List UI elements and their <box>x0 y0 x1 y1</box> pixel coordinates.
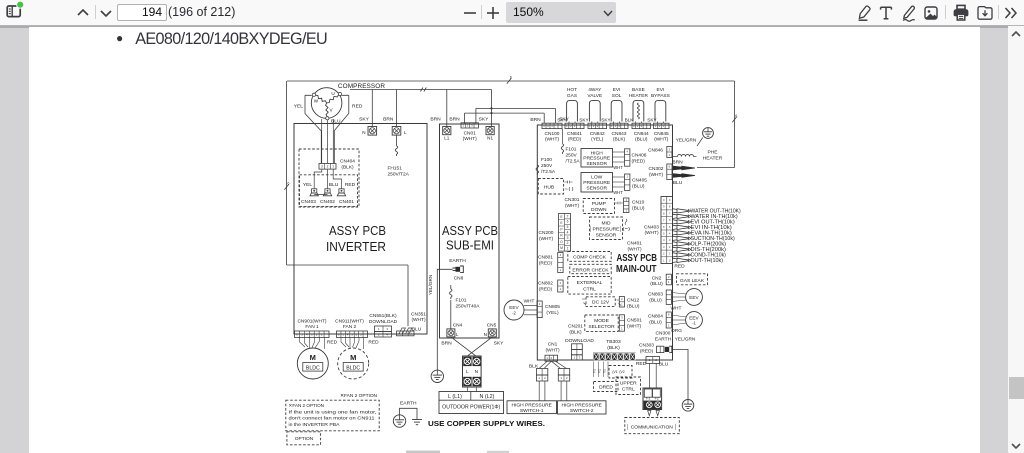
terminal N <box>368 127 377 136</box>
svg-text:(YEL): (YEL) <box>591 137 604 143</box>
svg-text:3: 3 <box>621 316 623 320</box>
svg-text:✕FAN 2 OPTION: ✕FAN 2 OPTION <box>289 403 325 408</box>
wire marker 6 wires <box>507 78 511 84</box>
svg-text:(BLU): (BLU) <box>649 319 662 325</box>
svg-text:6: 6 <box>567 220 569 224</box>
svg-text:N (L2): N (L2) <box>480 394 495 400</box>
earth circle power <box>431 370 443 382</box>
external ctrl dashed box <box>568 277 611 295</box>
svg-text:2: 2 <box>669 147 671 151</box>
connector CN804 <box>666 312 671 328</box>
svg-text:CN403: CN403 <box>644 224 659 230</box>
svg-text:F100: F100 <box>541 157 552 163</box>
svg-text:8: 8 <box>663 211 665 215</box>
svg-text:1: 1 <box>539 302 541 306</box>
svg-text:If the unit is using one fan m: If the unit is using one fan motor, <box>289 409 377 414</box>
svg-text:7: 7 <box>567 214 569 218</box>
compressor terminal U <box>338 92 341 95</box>
svg-text:9: 9 <box>663 205 665 209</box>
svg-text:1: 1 <box>589 124 591 128</box>
svg-text:WHT: WHT <box>524 298 535 303</box>
svg-text:2: 2 <box>570 124 572 128</box>
svg-text:(RED): (RED) <box>539 260 553 266</box>
svg-text:YEL: YEL <box>303 182 313 188</box>
DRED dashed box <box>594 382 619 392</box>
svg-text:(RED): (RED) <box>539 286 553 292</box>
svg-text:E: E <box>560 215 563 219</box>
svg-text:F101: F101 <box>566 147 577 153</box>
svg-text:1: 1 <box>621 302 623 306</box>
svg-text:2: 2 <box>637 124 639 128</box>
svg-text:CN911(WHT): CN911(WHT) <box>335 318 364 324</box>
UPPER CTRL dashed box <box>616 377 641 395</box>
svg-text:BASE: BASE <box>632 87 645 93</box>
svg-text:MODE: MODE <box>594 318 609 324</box>
wires to power terminal crossing <box>451 337 476 356</box>
svg-text:ASSY PCB: ASSY PCB <box>329 224 386 238</box>
svg-text:BLK: BLK <box>625 117 635 122</box>
wire drop to junction <box>491 90 493 127</box>
svg-text:SUB-EMI: SUB-EMI <box>446 239 494 253</box>
connector CN405 <box>625 174 630 190</box>
svg-text:6: 6 <box>668 313 670 317</box>
svg-text:CN2: CN2 <box>652 275 662 281</box>
svg-text:BLU: BLU <box>659 362 669 368</box>
svg-text:✕FAN 2 OPTION: ✕FAN 2 OPTION <box>340 393 378 399</box>
high pressure sensor box <box>581 149 613 168</box>
compressor winding V <box>326 103 329 117</box>
svg-text:ERROR CHECK: ERROR CHECK <box>572 267 609 273</box>
CN404 option dashed box <box>299 149 359 207</box>
svg-text:CN406: CN406 <box>632 153 647 159</box>
connector switch-2 <box>558 369 569 376</box>
svg-text:YEL: YEL <box>294 104 304 110</box>
svg-text:SKY: SKY <box>479 117 490 123</box>
svg-text:CN01: CN01 <box>464 130 477 136</box>
wires to communication block <box>648 363 650 388</box>
fuse F101 40A <box>450 300 452 329</box>
svg-text:0: 0 <box>663 198 665 202</box>
svg-text:CN801: CN801 <box>538 255 553 261</box>
svg-text:3: 3 <box>662 124 664 128</box>
svg-text:6: 6 <box>510 75 512 79</box>
svg-text:COMPRESSOR: COMPRESSOR <box>338 83 385 90</box>
svg-text:N: N <box>484 332 487 337</box>
high pressure switch-2 box <box>558 401 607 414</box>
svg-text:DOWN: DOWN <box>591 207 607 213</box>
svg-text:CN200: CN200 <box>539 230 554 236</box>
svg-text:CN12: CN12 <box>627 298 640 304</box>
earth bracket <box>400 408 418 419</box>
svg-text:(BLK): (BLK) <box>569 329 582 335</box>
svg-text:BYPASS: BYPASS <box>651 93 670 99</box>
svg-text:CN300: CN300 <box>656 330 671 336</box>
svg-text:6: 6 <box>663 225 665 229</box>
svg-text:(BLU): (BLU) <box>649 297 662 303</box>
svg-text:CN302: CN302 <box>649 166 664 172</box>
wire left drop feed <box>286 81 288 265</box>
svg-text:3: 3 <box>567 236 569 240</box>
connector CN845 <box>654 123 670 128</box>
plug CN402 <box>325 189 330 193</box>
svg-text:1: 1 <box>560 268 562 272</box>
svg-text:M: M <box>560 246 563 250</box>
svg-text:5: 5 <box>663 231 665 235</box>
svg-text:2: 2 <box>668 275 670 279</box>
connector CN805 <box>537 301 542 318</box>
svg-text:GAS LEAK: GAS LEAK <box>680 278 705 284</box>
svg-text:CN402: CN402 <box>320 199 335 205</box>
terminal strip TB303 <box>593 353 636 361</box>
svg-text:2: 2 <box>567 241 569 245</box>
svg-text:(BLU): (BLU) <box>635 137 648 143</box>
wire marker 6 wires right <box>732 117 736 123</box>
outdoor power table <box>439 392 504 414</box>
svg-text:SKY: SKY <box>557 117 567 122</box>
svg-text:│PRESSURE│: │PRESSURE│ <box>589 225 622 232</box>
V1V2 dashed box <box>609 366 632 379</box>
svg-text:250V/T40A: 250V/T40A <box>456 304 481 310</box>
svg-text:WHT: WHT <box>613 165 623 170</box>
svg-text:ASSY PCB: ASSY PCB <box>442 224 498 238</box>
svg-text:U: U <box>331 91 334 96</box>
svg-text:1: 1 <box>669 153 671 157</box>
compressor winding U <box>327 95 339 103</box>
svg-text:PRESSURE: PRESSURE <box>583 180 611 186</box>
svg-text:3: 3 <box>663 245 665 249</box>
error check dashed box <box>570 264 611 273</box>
svg-text:YEL/GRN: YEL/GRN <box>428 275 433 296</box>
jumper CN403-CN402 <box>314 194 327 196</box>
svg-text:CN803: CN803 <box>648 292 663 298</box>
connector CN802 <box>558 280 563 292</box>
svg-text:F101: F101 <box>456 298 467 304</box>
svg-text:2: 2 <box>663 252 665 256</box>
svg-text:1: 1 <box>663 258 665 262</box>
svg-text:YEL/GRN: YEL/GRN <box>675 336 696 341</box>
svg-text:F2: F2 <box>598 369 602 373</box>
svg-text:RED: RED <box>368 340 379 346</box>
svg-text:CN805: CN805 <box>545 304 560 310</box>
svg-text:ORG: ORG <box>671 328 682 334</box>
svg-text:CN802: CN802 <box>538 281 553 287</box>
svg-text:RED: RED <box>327 340 338 346</box>
svg-text:2: 2 <box>544 376 546 380</box>
svg-text:CTRL: CTRL <box>622 387 635 393</box>
connector CN801 <box>558 253 563 273</box>
wires block to table <box>466 387 468 392</box>
svg-text:/T2.5A: /T2.5A <box>566 159 581 165</box>
svg-text:1: 1 <box>573 355 575 359</box>
svg-text:1: 1 <box>621 326 623 330</box>
svg-text:USE COPPER SUPPLY WIRES.: USE COPPER SUPPLY WIRES. <box>428 419 545 428</box>
ASSY PCB SUB-EMI box <box>440 124 500 338</box>
thermistor DIS-TH(200k) <box>673 247 685 251</box>
svg-text:CTRL: CTRL <box>583 286 596 292</box>
svg-text:CN1: CN1 <box>548 341 558 347</box>
thermistor OUT-TH(10k) <box>673 258 685 262</box>
svg-text:CN844: CN844 <box>634 131 649 137</box>
svg-text:4: 4 <box>567 230 569 234</box>
svg-text:V: V <box>330 108 334 113</box>
plug CN401 <box>339 189 344 193</box>
svg-text:GAS: GAS <box>567 93 577 99</box>
thermistor OLP-TH(200k) <box>673 242 685 246</box>
svg-text:2: 2 <box>593 124 595 128</box>
svg-text:1: 1 <box>538 376 540 380</box>
wires CN404 to plugs <box>314 169 341 189</box>
svg-text:-2: -2 <box>512 311 516 316</box>
PHE heater coil <box>678 154 694 156</box>
svg-text:250V/T2A: 250V/T2A <box>388 172 410 178</box>
svg-text:HIGH: HIGH <box>591 150 604 156</box>
svg-text:in the INVERTER PBA: in the INVERTER PBA <box>289 422 340 427</box>
partial next line text <box>406 451 440 453</box>
solenoid BASE HEATER <box>633 101 644 122</box>
svg-text:1: 1 <box>626 175 628 179</box>
svg-text:CN201: CN201 <box>568 324 583 330</box>
svg-text:4: 4 <box>626 150 628 154</box>
svg-text:ASSY PCB: ASSY PCB <box>617 253 658 264</box>
ASSY PCB INVERTER box <box>294 124 427 335</box>
svg-text:BLDC: BLDC <box>306 365 320 371</box>
svg-text:RED: RED <box>345 182 356 188</box>
svg-text:CN8: CN8 <box>454 276 464 282</box>
svg-text:(BLU): (BLU) <box>650 281 663 287</box>
svg-text:P: P <box>560 227 563 231</box>
wire bus to CN100 upper <box>476 107 556 109</box>
svg-text:1: 1 <box>668 280 670 284</box>
heater coil inside BASE HEATER <box>637 103 639 119</box>
wires fan1 to motor <box>300 338 325 350</box>
svg-text:2: 2 <box>327 164 329 168</box>
svg-text:5: 5 <box>669 225 671 229</box>
svg-text:YEL/GRN: YEL/GRN <box>676 138 697 143</box>
svg-text:MID: MID <box>602 220 611 226</box>
svg-text:1: 1 <box>560 376 562 380</box>
svg-text:2: 2 <box>547 124 549 128</box>
svg-text:1: 1 <box>668 323 670 327</box>
svg-text:(BLK): (BLK) <box>613 137 626 143</box>
svg-text:SWITCH-2: SWITCH-2 <box>570 408 594 414</box>
svg-text:CN842: CN842 <box>590 131 605 137</box>
svg-text:BLU: BLU <box>673 180 683 186</box>
svg-text:O: O <box>560 240 563 244</box>
svg-text:5: 5 <box>567 225 569 229</box>
svg-text:FH151: FH151 <box>388 166 403 172</box>
svg-text:SELECTOR: SELECTOR <box>588 324 615 330</box>
svg-text:6: 6 <box>669 165 671 169</box>
svg-text:0: 0 <box>669 258 671 262</box>
earth circle PHE <box>703 128 714 139</box>
connector CN403 strip <box>661 197 673 264</box>
gas leak dashed box <box>677 274 708 285</box>
svg-text:HIGH PRESSURE: HIGH PRESSURE <box>561 402 602 408</box>
thermistor EVI IN-TH(10k) <box>673 225 685 229</box>
comp check dashed box <box>568 252 611 262</box>
svg-text:2: 2 <box>615 124 617 128</box>
connector download <box>572 344 583 350</box>
svg-text:EVI: EVI <box>657 87 665 93</box>
svg-text:1: 1 <box>332 164 334 168</box>
solenoid HOT GAS <box>567 101 578 122</box>
svg-text:8: 8 <box>669 205 671 209</box>
svg-text:L (L1): L (L1) <box>448 394 462 400</box>
fuse F100 <box>536 165 539 175</box>
svg-text:(V1: (V1 <box>612 370 617 374</box>
svg-text:1: 1 <box>567 247 569 251</box>
fuse F101 2.5A <box>562 129 564 144</box>
svg-text:DC 12V: DC 12V <box>592 300 610 306</box>
earth circle right <box>682 400 694 412</box>
svg-text:N1: N1 <box>487 136 493 141</box>
compressor motor M circle <box>311 88 342 119</box>
svg-text:SENSOR: SENSOR <box>596 232 617 238</box>
svg-text:BRN: BRN <box>449 117 460 123</box>
svg-text:L: L <box>466 369 469 375</box>
CN404 inner dashed box <box>300 175 358 207</box>
mid pressure sensor dashed box <box>590 217 623 240</box>
svg-text:2: 2 <box>566 376 568 380</box>
connector CN10 <box>624 198 629 213</box>
compressor winding W <box>315 95 326 103</box>
svg-text:INVERTER: INVERTER <box>326 240 386 254</box>
svg-text:SOL: SOL <box>612 93 622 99</box>
connector CN843 <box>610 123 628 128</box>
svg-text:SWITCH-1: SWITCH-1 <box>520 408 544 414</box>
svg-text:OUTDOOR POWER(1Φ): OUTDOOR POWER(1Φ) <box>442 405 500 411</box>
svg-text:RED: RED <box>352 104 363 110</box>
svg-text:CN405: CN405 <box>632 178 647 184</box>
svg-text:E: E <box>560 221 563 225</box>
svg-text:RED: RED <box>674 264 685 270</box>
wire L-feed top bus <box>287 80 735 82</box>
svg-text:3: 3 <box>551 124 553 128</box>
svg-text:L: L <box>404 130 407 135</box>
svg-text:HUB: HUB <box>544 185 554 191</box>
svg-text:M: M <box>350 353 356 362</box>
svg-text:CN303: CN303 <box>639 343 654 349</box>
connector CN2 <box>666 274 671 285</box>
svg-text:CN401: CN401 <box>627 241 642 247</box>
note FAN 2 OPTION box <box>286 400 379 431</box>
svg-text:CN901(WHT): CN901(WHT) <box>297 318 326 324</box>
wire drop to L1 terminal <box>446 90 448 127</box>
earth circle symbol <box>393 415 405 427</box>
svg-text:3: 3 <box>618 124 620 128</box>
wire CN303 to earth <box>672 349 688 399</box>
plug CN403 <box>312 189 317 193</box>
svg-text:CN551(BLK): CN551(BLK) <box>369 313 397 319</box>
communication terminal block <box>643 388 662 410</box>
svg-text:(BLK): (BLK) <box>607 345 620 351</box>
svg-text:N: N <box>362 130 365 135</box>
svg-text:(WHT): (WHT) <box>565 203 580 209</box>
low pressure sensor box <box>581 173 613 193</box>
svg-text:3: 3 <box>641 124 643 128</box>
thermistor SUCTION-TH(10k) <box>673 236 685 240</box>
svg-text:CN100: CN100 <box>545 131 560 137</box>
svg-text:F1: F1 <box>646 397 650 401</box>
connector CN303 <box>657 346 664 352</box>
svg-text:(WHT): (WHT) <box>627 246 642 252</box>
svg-text:1: 1 <box>655 124 657 128</box>
svg-text:3: 3 <box>574 124 576 128</box>
wire bus to CN100 lower <box>465 112 545 114</box>
svg-text:6: 6 <box>669 218 671 222</box>
connector CN12 <box>619 297 624 307</box>
svg-text:RED: RED <box>636 361 647 367</box>
svg-text:don't connect fan motor on CN9: don't connect fan motor on CN911 <box>289 416 376 421</box>
svg-text:CN846: CN846 <box>648 148 663 154</box>
svg-text:1: 1 <box>378 327 380 331</box>
svg-text:LOW: LOW <box>591 175 603 181</box>
svg-text:1: 1 <box>669 252 671 256</box>
wire drop to L terminal <box>396 90 398 127</box>
svg-text:R: R <box>560 234 563 238</box>
connector CN501 <box>619 315 624 331</box>
svg-text:(RED): (RED) <box>632 158 646 164</box>
motor M1 BLDC <box>297 348 328 379</box>
svg-text:1: 1 <box>625 209 627 213</box>
svg-text:PRESSURE: PRESSURE <box>583 156 611 162</box>
svg-text:3: 3 <box>386 327 388 331</box>
svg-text:(WHT): (WHT) <box>654 137 669 143</box>
svg-text:L1: L1 <box>444 136 450 141</box>
thermistor EVA IN-TH(10k) <box>673 231 685 235</box>
wire across inverter <box>287 264 408 266</box>
connector CN100 <box>542 123 562 128</box>
svg-text:2: 2 <box>659 124 661 128</box>
svg-text:DOWNLOAD: DOWNLOAD <box>565 338 594 344</box>
svg-text:SENSOR: SENSOR <box>586 186 607 192</box>
svg-text:9: 9 <box>669 198 671 202</box>
svg-text:VALVE: VALVE <box>587 93 602 99</box>
svg-text:BLU: BLU <box>329 182 339 188</box>
svg-text:SKY: SKY <box>647 117 657 122</box>
svg-text:(BLU): (BLU) <box>632 205 645 211</box>
svg-text:V1: V1 <box>603 369 607 373</box>
svg-text:SKY: SKY <box>579 117 589 122</box>
svg-text:W: W <box>314 99 319 104</box>
svg-text:(WHT): (WHT) <box>463 136 478 142</box>
svg-text:4: 4 <box>669 231 671 235</box>
svg-text:CN845: CN845 <box>654 131 669 137</box>
motor M2 BLDC optional <box>338 348 369 379</box>
svg-text:(YEL): (YEL) <box>546 310 559 316</box>
svg-text:MAIN-OUT: MAIN-OUT <box>616 264 657 275</box>
svg-text:CN10: CN10 <box>632 200 645 206</box>
svg-text:CN4: CN4 <box>453 322 463 328</box>
svg-text:1: 1 <box>566 124 568 128</box>
svg-text:DRED: DRED <box>599 385 613 391</box>
connector CN01 <box>461 123 478 128</box>
svg-text:L: L <box>456 332 459 337</box>
wires fan2 to motor <box>341 338 364 350</box>
wires to switch boxes <box>538 381 540 401</box>
svg-text:(BLU): (BLU) <box>632 183 645 189</box>
compressor phase wires <box>321 119 323 164</box>
svg-text:1: 1 <box>633 124 635 128</box>
svg-text:1: 1 <box>611 124 613 128</box>
svg-text:6: 6 <box>735 114 737 118</box>
svg-text:250V: 250V <box>566 153 578 159</box>
svg-text:EARTH: EARTH <box>449 258 466 264</box>
svg-text:CN351: CN351 <box>411 311 426 317</box>
svg-text:(WHT): (WHT) <box>545 137 560 143</box>
svg-text:BLDC: BLDC <box>346 365 360 371</box>
connector EEPROM <box>559 214 571 252</box>
